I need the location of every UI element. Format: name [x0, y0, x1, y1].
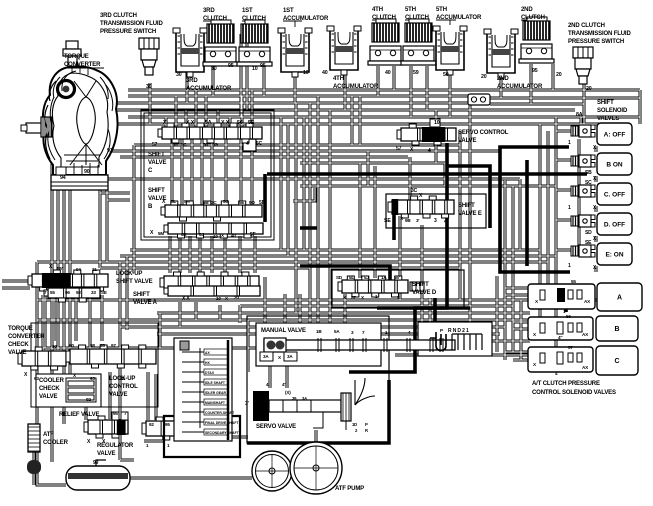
svg-text:4TH: 4TH [333, 76, 344, 82]
svg-text:4: 4 [428, 148, 431, 154]
inline check valve [468, 94, 490, 105]
svg-text:4: 4 [246, 141, 249, 147]
svg-text:5B: 5B [203, 200, 209, 205]
svg-text:30: 30 [211, 66, 217, 72]
lock-up control enclosure [31, 323, 158, 407]
lock-up shift valve lower spool [44, 288, 100, 302]
svg-text:50: 50 [443, 72, 449, 78]
A/T control solenoid A label box [597, 283, 642, 311]
svg-text:3A: 3A [302, 396, 307, 401]
svg-text:5G: 5G [223, 199, 229, 204]
svg-text:R N D 2 1: R N D 2 1 [448, 328, 469, 334]
svg-text:TORQUE: TORQUE [64, 54, 89, 60]
svg-text:20: 20 [234, 295, 239, 300]
svg-text:5H: 5H [184, 199, 190, 204]
svg-text:SD: SD [585, 230, 592, 236]
svg-text:3RD: 3RD [203, 8, 215, 14]
bold wire M569,147 H500 V272 H570 [500, 147, 570, 272]
shift valve A spool [160, 272, 259, 293]
bold wire M300,228 H317 [300, 226, 317, 230]
shift solenoid A [571, 125, 595, 137]
ATF strainer [66, 466, 130, 490]
svg-text:SHIFT: SHIFT [597, 100, 614, 106]
svg-text:ACCUMULATOR: ACCUMULATOR [283, 16, 329, 22]
bold wire M267,174 H587 [267, 172, 587, 176]
svg-text:VALVE: VALVE [97, 451, 116, 457]
svg-text:56: 56 [237, 120, 243, 126]
bold wire M300,266 H390 V291 [300, 266, 390, 291]
label box E: ON [597, 243, 632, 265]
svg-text:SHIFT: SHIFT [133, 292, 150, 298]
svg-text:ACCUMULATOR: ACCUMULATOR [497, 84, 543, 90]
torque converter check valve spool [18, 347, 66, 370]
svg-text:ATF PUMP: ATF PUMP [335, 486, 364, 492]
svg-text:95: 95 [165, 422, 170, 427]
svg-text:3A: 3A [287, 354, 293, 359]
svg-text:99: 99 [93, 460, 99, 466]
svg-text:30: 30 [176, 72, 182, 78]
gear selector fork RND21 [430, 332, 482, 351]
svg-text:90: 90 [69, 343, 74, 348]
bold wire M447,166 H490 V228 [447, 166, 490, 228]
svg-text:CONTROL: CONTROL [109, 384, 138, 390]
svg-text:VALVE A: VALVE A [133, 300, 158, 306]
svg-text:IDLE SHAFT: IDLE SHAFT [205, 381, 226, 385]
svg-text:ACCUMULATOR: ACCUMULATOR [333, 84, 379, 90]
svg-text:2ND CLUTCH: 2ND CLUTCH [568, 23, 605, 29]
manual valve spool [264, 338, 455, 352]
svg-text:55: 55 [50, 290, 55, 295]
3rd clutch [203, 20, 238, 66]
svg-text:D. OFF: D. OFF [604, 221, 625, 228]
bold hydraulic lines (applied pressure path) [267, 143, 587, 372]
svg-text:5A: 5A [334, 329, 340, 334]
svg-text:3': 3' [416, 218, 419, 223]
svg-text:90: 90 [84, 169, 90, 175]
bold wire M566,305 V312 [564, 305, 568, 312]
svg-text:2ND: 2ND [497, 76, 509, 82]
relief valve spool [84, 416, 128, 438]
svg-text:92: 92 [76, 290, 81, 295]
cooler check ball [27, 460, 41, 474]
A/T control solenoid B label box [596, 316, 638, 341]
shift solenoid C [571, 185, 595, 197]
svg-text:SE: SE [585, 240, 592, 246]
servo control valve [397, 124, 456, 145]
svg-text:5J: 5J [364, 275, 369, 280]
svg-text:CLUTCH: CLUTCH [242, 16, 266, 22]
2nd clutch transmission fluid pressure switch [573, 47, 593, 84]
svg-text:SHIFT: SHIFT [148, 188, 165, 194]
svg-text:A: A [617, 294, 622, 301]
bold wire M447,143 V308 H415 V372 H349 [349, 143, 447, 372]
bold wire M527,160 V266 [525, 160, 529, 266]
svg-text:5H: 5H [172, 142, 178, 147]
shift valve C spool [158, 123, 262, 143]
svg-text:1ST: 1ST [242, 8, 253, 14]
svg-text:TORQUE: TORQUE [8, 326, 33, 332]
svg-text:HX: HX [205, 361, 210, 365]
servo valve thick border [247, 380, 389, 443]
svg-text:55: 55 [100, 343, 105, 348]
svg-text:4: 4 [444, 219, 447, 225]
svg-text:1ST: 1ST [283, 8, 294, 14]
svg-text:C. OFF: C. OFF [604, 191, 625, 198]
3rd accumulator [173, 28, 207, 77]
svg-text:10: 10 [252, 66, 258, 72]
svg-text:VALVE: VALVE [458, 138, 477, 144]
svg-text:1: 1 [568, 263, 571, 269]
cooler check valve box [36, 374, 101, 407]
svg-text:COUNTER-SHAFT: COUNTER-SHAFT [205, 411, 235, 415]
svg-text:1D: 1D [352, 422, 357, 427]
shift valve E box [386, 194, 486, 228]
2nd clutch [519, 17, 554, 63]
shift valve D box [332, 270, 464, 308]
svg-text:FINAL DRIVE SHAFT: FINAL DRIVE SHAFT [205, 421, 239, 425]
bold wire M435,298 V322 [433, 298, 437, 322]
svg-text:4TH: 4TH [372, 7, 383, 13]
manual valve box [256, 323, 381, 366]
svg-text:5L: 5L [349, 275, 354, 280]
svg-text:SC: SC [585, 180, 592, 186]
svg-text:SECONDARY SHAFT: SECONDARY SHAFT [205, 431, 240, 435]
svg-text:SHIFT: SHIFT [148, 152, 165, 158]
svg-text:A/T CLUTCH PRESSURE: A/T CLUTCH PRESSURE [532, 381, 600, 387]
SB black bar [263, 174, 267, 222]
svg-text:3: 3 [434, 218, 437, 224]
svg-text:CLUTCH: CLUTCH [521, 15, 545, 21]
svg-text:X X: X X [186, 120, 195, 126]
svg-text:REGULATOR: REGULATOR [97, 443, 134, 449]
svg-text:3C: 3C [411, 188, 418, 194]
svg-text:8A: 8A [576, 112, 583, 118]
svg-text:5TH: 5TH [405, 7, 416, 13]
svg-text:56: 56 [203, 142, 208, 147]
svg-text:33: 33 [91, 290, 96, 295]
svg-text:SHIFT VALVE: SHIFT VALVE [116, 279, 153, 285]
svg-text:CONVERTER: CONVERTER [64, 62, 101, 68]
svg-text:VALVE E: VALVE E [458, 211, 482, 217]
svg-text:55': 55' [394, 275, 400, 280]
svg-text:55': 55' [57, 266, 63, 271]
lubrication distribution block [174, 338, 240, 441]
svg-text:CLUTCH: CLUTCH [372, 15, 396, 21]
svg-text:94: 94 [60, 175, 66, 181]
svg-text:SHIFT: SHIFT [458, 203, 475, 209]
svg-text:IDLER GEAR: IDLER GEAR [205, 391, 226, 395]
valve C port 4 box [243, 139, 256, 151]
svg-text:3C: 3C [211, 200, 217, 205]
svg-text:93: 93 [90, 376, 95, 381]
svg-text:R: R [365, 428, 368, 433]
shift valve D spool [338, 276, 408, 297]
4th accumulator [327, 26, 361, 75]
svg-text:6J: 6J [199, 232, 204, 237]
svg-text:C: C [614, 358, 619, 365]
svg-text:5A: 5A [205, 120, 212, 126]
shift solenoid D [571, 215, 595, 227]
svg-text:SERVO CONTROL: SERVO CONTROL [458, 130, 509, 136]
svg-text:30: 30 [146, 84, 152, 90]
svg-text:E: ON: E: ON [605, 251, 623, 258]
shift valve B/C enclosure box [141, 110, 274, 240]
torque converter [21, 41, 118, 190]
2nd accumulator [484, 29, 518, 78]
svg-text:57: 57 [152, 142, 158, 148]
svg-text:VALVES: VALVES [597, 116, 619, 122]
A/T control solenoid C label box [596, 346, 638, 375]
svg-text:ATF: ATF [43, 432, 54, 438]
svg-text:SOLENOID: SOLENOID [597, 108, 628, 114]
svg-text:5L: 5L [171, 199, 176, 204]
svg-text:A: OFF: A: OFF [604, 131, 626, 138]
shift valve E spool [388, 196, 454, 218]
svg-text:2ND: 2ND [521, 7, 533, 13]
svg-text:96: 96 [65, 290, 70, 295]
svg-text:20: 20 [556, 72, 562, 78]
svg-text:21: 21 [92, 267, 97, 272]
label box A: OFF [597, 123, 632, 145]
RND21 selector box [418, 322, 492, 356]
svg-text:5O: 5O [249, 200, 255, 205]
svg-text:10: 10 [216, 296, 221, 301]
svg-text:AX: AX [582, 365, 589, 370]
1st accumulator [278, 28, 312, 77]
svg-text:98: 98 [90, 343, 95, 348]
svg-text:RELIEF VALVE: RELIEF VALVE [59, 412, 99, 418]
cooler check valve spool [66, 378, 96, 402]
svg-text:90: 90 [52, 344, 57, 349]
svg-text:LOCK-UP: LOCK-UP [116, 271, 142, 277]
svg-text:5C: 5C [181, 142, 187, 147]
svg-text:VALVE: VALVE [109, 392, 128, 398]
label leader lines [64, 20, 539, 68]
svg-text:COOLER: COOLER [43, 440, 69, 446]
servo valve [253, 378, 375, 430]
shift solenoid B ON [571, 155, 595, 167]
svg-text:MANUAL VALVE: MANUAL VALVE [261, 328, 306, 334]
lock-up shift valve spool [28, 270, 108, 291]
svg-text:CONVERTER: CONVERTER [8, 334, 45, 340]
manual valve 3A ports [260, 352, 273, 361]
svg-text:5M: 5M [158, 231, 164, 236]
svg-text:10: 10 [303, 70, 309, 76]
svg-text:57: 57 [568, 345, 573, 350]
svg-text:57: 57 [351, 295, 356, 300]
shift valve B lower spool [164, 223, 263, 238]
1st clutch [237, 20, 272, 66]
shift valve A lower spool [164, 286, 260, 296]
svg-text:5B: 5B [259, 200, 266, 206]
svg-text:X X: X X [221, 120, 230, 126]
svg-text:VALVE: VALVE [8, 350, 27, 356]
svg-text:CHECK: CHECK [8, 342, 29, 348]
svg-text:DTAX: DTAX [205, 371, 215, 375]
svg-text:LOCK-UP: LOCK-UP [109, 376, 135, 382]
svg-text:X X: X X [182, 296, 190, 302]
svg-text:SE: SE [384, 218, 391, 224]
svg-text:40: 40 [231, 233, 236, 238]
svg-text:(X): (X) [285, 390, 291, 395]
svg-text:1B: 1B [316, 329, 322, 334]
A/T control solenoid C body [528, 347, 593, 372]
svg-text:6K: 6K [181, 232, 187, 237]
svg-text:5C: 5C [256, 141, 263, 147]
svg-text:B ON: B ON [606, 161, 623, 168]
svg-text:1A: 1A [381, 275, 387, 280]
shift valve D right cap [410, 282, 424, 291]
svg-text:40: 40 [385, 70, 391, 76]
svg-text:AX: AX [584, 299, 591, 304]
svg-text:3RD CLUTCH: 3RD CLUTCH [100, 13, 137, 19]
regulator thick frame [164, 416, 240, 457]
svg-text:95: 95 [113, 411, 118, 416]
svg-text:TRANSMISSION FLUID: TRANSMISSION FLUID [568, 31, 631, 37]
ATF pump [252, 451, 292, 491]
svg-text:3': 3' [245, 401, 249, 407]
svg-text:SE: SE [101, 290, 107, 295]
4th clutch [368, 19, 403, 65]
regulator valve spool [142, 417, 230, 440]
svg-text:MAINSHAFT: MAINSHAFT [205, 401, 226, 405]
svg-text:59: 59 [413, 70, 419, 76]
svg-text:56: 56 [566, 314, 571, 319]
label box C. OFF [597, 183, 632, 205]
svg-text:5E: 5E [248, 120, 255, 126]
label box D. OFF [597, 213, 632, 235]
svg-text:57: 57 [396, 146, 402, 152]
relief valve top ports [112, 412, 119, 420]
svg-text:CLUTCH: CLUTCH [203, 16, 227, 22]
bold wire M377,308 H470 [377, 306, 470, 310]
svg-text:AX: AX [205, 351, 210, 355]
svg-text:95: 95 [260, 63, 266, 69]
bold wire M394,214 V240 [392, 214, 396, 240]
svg-text:1: 1 [568, 205, 571, 211]
A/T control solenoid B body [528, 317, 593, 340]
svg-text:1: 1 [568, 140, 571, 146]
ATF cooler [28, 424, 40, 452]
svg-text:10: 10 [434, 120, 440, 126]
svg-text:20: 20 [586, 86, 592, 92]
svg-text:ACCUMULATOR: ACCUMULATOR [436, 15, 482, 21]
svg-text:40: 40 [322, 70, 328, 76]
lock-up control valve spool [66, 345, 156, 368]
A/T control solenoid A body [528, 284, 595, 309]
svg-text:91: 91 [107, 148, 113, 154]
svg-text:5TH: 5TH [436, 7, 447, 13]
shift valve B spool [161, 201, 262, 221]
svg-text:CHECK: CHECK [39, 386, 60, 392]
svg-text:20: 20 [481, 74, 487, 80]
svg-text:P: P [365, 422, 368, 427]
svg-text:B: B [614, 326, 619, 333]
svg-text:5G: 5G [212, 142, 218, 147]
svg-text:5E: 5E [239, 200, 244, 205]
svg-text:97: 97 [111, 343, 116, 348]
svg-text:9B: 9B [405, 218, 411, 223]
svg-text:VALVE: VALVE [39, 394, 58, 400]
svg-text:95: 95 [228, 63, 234, 69]
svg-text:SERVO VALVE: SERVO VALVE [256, 424, 296, 430]
svg-text:95: 95 [532, 68, 538, 74]
label box B ON [597, 153, 632, 175]
svg-text:TRANSMISSION FLUID: TRANSMISSION FLUID [100, 21, 163, 27]
svg-text:55: 55 [571, 279, 576, 284]
5th clutch [401, 19, 436, 65]
svg-text:P: P [440, 328, 443, 333]
svg-text:94: 94 [76, 267, 81, 272]
svg-text:SD: SD [336, 275, 343, 280]
svg-text:2: 2 [445, 149, 448, 155]
svg-text:SB: SB [585, 170, 592, 176]
svg-text:PRESSURE SWITCH: PRESSURE SWITCH [568, 39, 624, 45]
svg-text:VALVE D: VALVE D [412, 290, 437, 296]
svg-text:92: 92 [149, 422, 154, 427]
svg-text:CONTROL SOLENOID VALVES: CONTROL SOLENOID VALVES [532, 390, 616, 396]
svg-text:3A: 3A [263, 354, 269, 359]
svg-text:4': 4' [266, 382, 269, 387]
svg-text:ACCUMULATOR: ACCUMULATOR [186, 86, 232, 92]
lube block thick right edge [227, 340, 230, 440]
svg-text:92: 92 [86, 397, 91, 402]
shift solenoid E [571, 245, 595, 257]
svg-text:AX: AX [582, 332, 589, 337]
3rd clutch transmission fluid pressure switch [139, 38, 159, 75]
svg-text:COOLER: COOLER [39, 378, 65, 384]
5th accumulator [433, 26, 467, 75]
svg-text:VALVE: VALVE [148, 160, 167, 166]
svg-text:5F: 5F [250, 232, 256, 238]
svg-text:3RD: 3RD [186, 78, 198, 84]
svg-text:CLUTCH: CLUTCH [405, 15, 429, 21]
svg-text:SHIFT: SHIFT [412, 282, 429, 288]
manual/servo valve enclosure [247, 316, 389, 443]
svg-text:PRESSURE SWITCH: PRESSURE SWITCH [100, 29, 156, 35]
svg-text:10: 10 [213, 234, 218, 239]
